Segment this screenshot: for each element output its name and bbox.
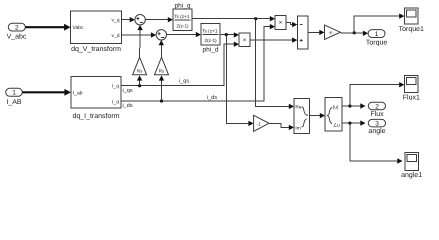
block RI (Re-Im to Complex) bbox=[294, 99, 310, 134]
junction angle branch bbox=[348, 122, 351, 125]
wire P1 to sum S3 bbox=[286, 22, 297, 27]
wire i_qs to product P2 bbox=[121, 42, 239, 86]
svg-text:×: × bbox=[243, 37, 247, 44]
wire phi_q to Re input bbox=[256, 19, 294, 109]
wire phi_d to product P2 bbox=[220, 32, 239, 37]
svg-text:Flux1: Flux1 bbox=[403, 93, 420, 101]
gain -1 bbox=[254, 115, 269, 131]
svg-text:2(z-1): 2(z-1) bbox=[176, 23, 189, 28]
svg-text:-1: -1 bbox=[256, 121, 260, 127]
wire P2 to sum S3 bbox=[250, 37, 297, 42]
svg-text:i_qs: i_qs bbox=[123, 88, 133, 94]
scope Flux1 bbox=[403, 76, 420, 102]
product P2 (phi_d x i_qs) bbox=[239, 33, 250, 47]
svg-text:angle1: angle1 bbox=[401, 171, 422, 179]
junction flux branch bbox=[348, 104, 351, 107]
svg-text:Im: Im bbox=[295, 126, 300, 132]
wire RI to CMA bbox=[310, 113, 326, 118]
outport 1 Torque bbox=[366, 30, 388, 47]
gain Rs1 bbox=[133, 57, 147, 75]
junction i_qs to gain Rs1 bbox=[138, 84, 141, 87]
svg-text:Torque: Torque bbox=[366, 39, 388, 46]
wire v_d bbox=[122, 32, 157, 37]
junction torque branch bbox=[353, 31, 356, 34]
product P1 (phi_q x i_ds) bbox=[275, 15, 286, 29]
gain K (torque constant) bbox=[325, 25, 341, 40]
svg-text:Vabc: Vabc bbox=[73, 25, 85, 31]
wire I_AB (vector, bold) bbox=[22, 89, 71, 96]
svg-text:V_abc: V_abc bbox=[7, 33, 27, 41]
svg-text:3: 3 bbox=[375, 120, 379, 128]
wire -1 to Im input bbox=[269, 123, 294, 130]
svg-text:phi_d: phi_d bbox=[203, 46, 219, 53]
svg-text:Ts (z+1: Ts (z+1 bbox=[174, 14, 190, 19]
svg-text:i_qs: i_qs bbox=[179, 79, 189, 85]
block dq_I_transform bbox=[71, 77, 121, 120]
svg-text:×: × bbox=[279, 20, 283, 27]
svg-text:2(z-1): 2(z-1) bbox=[204, 38, 217, 43]
svg-text:Rs: Rs bbox=[159, 69, 165, 74]
svg-text:1: 1 bbox=[12, 89, 16, 97]
wire to scope Torque1 bbox=[354, 13, 404, 32]
svg-text:dq_I_transform: dq_I_transform bbox=[72, 112, 119, 120]
wire i_qs up to Rs1 bbox=[137, 75, 142, 85]
wire angle to outport angle bbox=[342, 120, 366, 125]
wire gain K to outport Torque bbox=[340, 31, 368, 36]
svg-text:Re: Re bbox=[295, 105, 301, 111]
svg-text:Flux: Flux bbox=[370, 110, 384, 118]
wire Rs1 to sum S1 bbox=[137, 25, 142, 57]
svg-text:Torque1: Torque1 bbox=[399, 26, 424, 33]
wire S1 to TF phi_q bbox=[145, 17, 173, 22]
svg-text:2: 2 bbox=[375, 102, 379, 110]
wire v_q bbox=[122, 17, 135, 22]
sum S1 (v_q - Rs*i_qs) bbox=[135, 15, 145, 25]
outport 3 angle bbox=[368, 119, 385, 135]
gain Rs2 bbox=[155, 57, 169, 75]
svg-text:2: 2 bbox=[15, 24, 19, 32]
wire phi_q to product P1 bbox=[192, 16, 275, 21]
junction phi_q branch bbox=[254, 17, 257, 20]
svg-text:angle: angle bbox=[368, 127, 385, 135]
wire V_abc (vector, bold) bbox=[25, 24, 70, 31]
sum S2 (v_d - Rs*i_ds) bbox=[156, 30, 166, 40]
wire |u| to outport Flux bbox=[342, 103, 366, 108]
wire to scope Flux1 bbox=[350, 82, 405, 106]
transfer fcn phi_d bbox=[201, 24, 220, 54]
svg-text:v_q: v_q bbox=[111, 17, 119, 23]
svg-text:I_AB: I_AB bbox=[6, 99, 22, 106]
svg-text:|u|: |u| bbox=[333, 105, 338, 111]
wire i_ds up to Rs2 bbox=[159, 75, 164, 101]
block CMA (Complex to Magnitude-Angle) bbox=[325, 98, 342, 132]
wire i_ds to product P1 bbox=[121, 24, 275, 101]
wire to scope angle1 bbox=[350, 123, 403, 164]
scope angle1 bbox=[401, 152, 422, 179]
svg-text:1: 1 bbox=[375, 30, 379, 38]
svg-text:Ts (z+1: Ts (z+1 bbox=[202, 28, 218, 33]
svg-text:I_ab: I_ab bbox=[73, 90, 83, 96]
sum S3 (rectangular, -+) bbox=[297, 16, 308, 49]
wire phi_d to gain -1 bbox=[226, 35, 253, 127]
inport 1 I_AB bbox=[6, 88, 23, 106]
svg-text:-K-: -K- bbox=[328, 30, 334, 35]
svg-text:i_ds: i_ds bbox=[123, 103, 133, 109]
junction phi_d branch bbox=[225, 33, 228, 36]
wire S2 to TF phi_d bbox=[167, 32, 202, 37]
svg-text:Rs: Rs bbox=[137, 69, 143, 74]
wire S3 to gain K bbox=[308, 30, 325, 35]
scope Torque1 bbox=[399, 8, 424, 33]
svg-text:∠u: ∠u bbox=[333, 122, 340, 128]
wire Rs2 to sum S2 bbox=[159, 40, 164, 57]
junction i_ds to gain Rs2 bbox=[160, 99, 163, 102]
svg-text:I_d: I_d bbox=[112, 99, 119, 105]
svg-text:dq_V_transform: dq_V_transform bbox=[71, 45, 121, 53]
svg-text:I_q: I_q bbox=[112, 83, 119, 89]
outport 2 Flux bbox=[368, 102, 385, 118]
svg-text:phi_q: phi_q bbox=[175, 2, 191, 9]
transfer fcn phi_q bbox=[173, 2, 192, 30]
inport 2 V_abc bbox=[7, 23, 27, 40]
block dq_V_transform bbox=[71, 11, 122, 53]
svg-text:v_d: v_d bbox=[111, 33, 119, 39]
svg-text:i_ds: i_ds bbox=[207, 95, 217, 101]
